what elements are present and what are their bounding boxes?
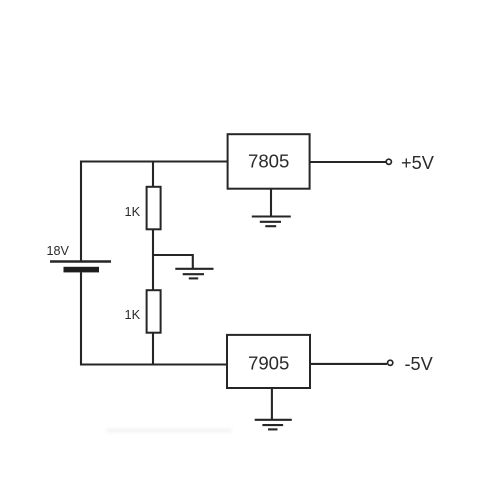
wire: R1 bottom to R2 top (divider midpoint) [152, 229, 154, 290]
regulator U1 7805 [228, 134, 310, 189]
wire: midpoint branch to ground [153, 255, 193, 269]
wire: U2 output to -5V terminal [310, 363, 387, 365]
wire: top rail junction down to resistor R1 [152, 162, 154, 188]
resistor R1 [147, 187, 161, 230]
ground: divider midpoint [175, 269, 213, 279]
battery B1 positive plate (long thin) [50, 260, 111, 262]
svg-text:+5V: +5V [401, 153, 435, 173]
terminal: +5V output node [386, 159, 391, 164]
ground: U1 [252, 217, 291, 227]
battery B1 negative plate (short thick) [64, 267, 100, 273]
resistor R2 [147, 290, 161, 333]
wire: U1 ground pin [270, 189, 272, 217]
faint watermark smudge [106, 429, 232, 432]
wire: U2 ground pin [271, 388, 273, 420]
terminal: -5V output node [388, 360, 393, 365]
regulator U2 7905 [227, 335, 310, 388]
svg-text:1K: 1K [125, 204, 141, 219]
svg-text:7805: 7805 [248, 150, 289, 171]
wire: U1 output to +5V terminal [310, 161, 386, 163]
svg-text:1K: 1K [125, 307, 141, 322]
wire: R2 bottom to bottom rail junction [152, 333, 154, 365]
svg-text:-5V: -5V [405, 354, 434, 374]
ground: U2 [255, 420, 292, 430]
wire: top rail from left corner to 7805 input [81, 162, 228, 263]
wire: battery negative down and bottom rail to 7905 input [81, 272, 227, 364]
svg-text:18V: 18V [47, 244, 70, 258]
svg-text:7905: 7905 [248, 353, 289, 374]
